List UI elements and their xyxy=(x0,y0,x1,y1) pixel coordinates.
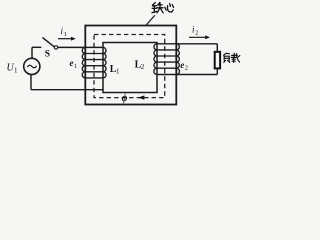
svg-text:S: S xyxy=(45,49,50,59)
wire switch to winding L1 top turn xyxy=(58,46,103,48)
wire down to load top xyxy=(216,44,218,52)
core label pointer line xyxy=(146,15,155,25)
transformer core outer boundary xyxy=(85,26,176,105)
wire load bottom to L2 bottom turn xyxy=(157,74,217,76)
svg-text:2: 2 xyxy=(141,63,145,71)
winding L2 right loops xyxy=(176,44,179,75)
load resistor xyxy=(215,52,220,69)
winding L2 left loops xyxy=(154,44,157,75)
current i1 arrow xyxy=(58,38,72,40)
svg-text:1: 1 xyxy=(14,67,18,75)
wire source top xyxy=(31,47,33,58)
wire L2 top to load xyxy=(157,43,217,45)
svg-text:1: 1 xyxy=(64,31,67,38)
load label 负载 (drawn strokes) xyxy=(224,53,240,62)
winding L1 right loops xyxy=(103,47,106,78)
core label 铁心 (drawn strokes) xyxy=(152,2,174,12)
current i2 arrow xyxy=(189,36,206,38)
switch pivot xyxy=(54,46,57,49)
winding L1 rungs xyxy=(85,54,103,78)
source U1 circle xyxy=(24,58,40,74)
svg-text:2: 2 xyxy=(195,29,198,36)
switch S blade xyxy=(42,37,54,46)
wire to switch contact xyxy=(32,46,41,48)
flux direction arrowhead xyxy=(138,95,145,99)
wire bottom to winding L1 bottom turn xyxy=(31,89,103,91)
svg-text:e: e xyxy=(180,60,184,70)
svg-text:1: 1 xyxy=(116,68,120,76)
flux path phi (dashed) xyxy=(94,35,165,98)
svg-text:ϕ: ϕ xyxy=(122,93,128,104)
wire load bottom down xyxy=(216,68,218,74)
winding L2 rungs xyxy=(157,50,176,68)
svg-text:1: 1 xyxy=(74,63,77,70)
svg-text:e: e xyxy=(70,58,74,68)
wire source bottom down xyxy=(30,74,32,89)
winding L1 left loops xyxy=(82,47,85,78)
source sine symbol xyxy=(27,65,36,68)
transformer core inner window xyxy=(103,43,157,93)
svg-text:2: 2 xyxy=(185,65,188,72)
